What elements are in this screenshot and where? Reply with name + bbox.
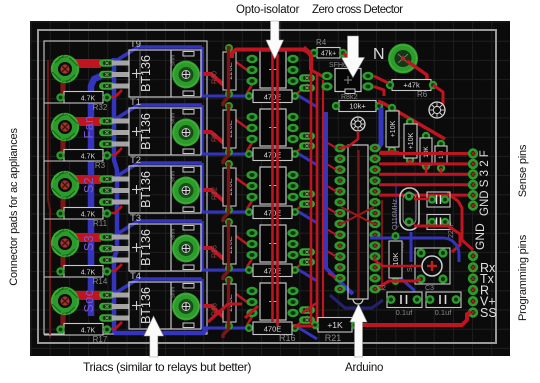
resistor R3 4.7K: [44, 160, 64, 162]
wire blue channel mid 3: [200, 163, 203, 212]
opto-isolator IC 2: [246, 113, 257, 121]
arrow zero cross: [342, 36, 365, 78]
wire blue dip bottom: [330, 295, 358, 308]
svg-text:+10K: +10K: [390, 120, 397, 137]
wire red from N pad: [407, 61, 427, 83]
capacitor C4 22pF: [428, 195, 436, 203]
svg-text:+10K: +10K: [408, 132, 415, 149]
pad DIP pin 22: [369, 209, 380, 218]
wire red crystal right: [414, 226, 460, 252]
resistor R9 220E: [225, 102, 233, 110]
triac tab pad 1: [172, 61, 200, 89]
pad DIP pin 6: [334, 198, 345, 207]
wire red stub pin 5: [328, 186, 336, 191]
pads node right 4: [299, 248, 315, 256]
resistor R18 220E: [225, 276, 233, 284]
wire red from pad to pin 5: [74, 291, 101, 300]
wire blue under resistor 470E 4: [202, 270, 317, 281]
wire red tab to right 3: [192, 190, 229, 208]
resistor R32 4.7K: [44, 102, 64, 104]
svg-text:BT136: BT136: [139, 55, 153, 92]
pad DIP pin 3: [334, 165, 345, 174]
wire blue crystal side: [395, 184, 397, 228]
wire red from pad to pin 3: [74, 175, 101, 184]
svg-text:5mm: 5mm: [171, 287, 177, 298]
pad DIP pin 20: [369, 230, 380, 239]
wire: blue bottom horizontal: [114, 327, 208, 333]
pad DIP pin 25: [369, 176, 380, 185]
wire red from pad to pin 2: [74, 117, 101, 126]
pad DIP pin 16: [369, 274, 380, 283]
wire red dip cross diagonals: [341, 207, 374, 224]
wire blue button loop: [370, 237, 443, 240]
svg-text:R32: R32: [93, 103, 108, 112]
triac tab pad 2: [172, 119, 200, 147]
wire blue channel mid 1: [200, 47, 203, 96]
wire: blue pad bus left: [91, 76, 101, 316]
resistor bank +10K: [388, 104, 396, 112]
resistor R11 4.7K: [44, 218, 64, 220]
pads sense pins: [468, 148, 478, 158]
pad DIP pin 19: [369, 241, 380, 250]
wire red tab to right 5: [192, 306, 229, 324]
wire blue channel top 1: [114, 47, 202, 62]
pad DIP pin 21: [369, 220, 380, 229]
wire blue channel top 3: [114, 163, 202, 178]
wire red opto diag 4: [232, 233, 247, 244]
svg-text:Programming pins: Programming pins: [517, 234, 529, 321]
wire red bank pads to sense: [391, 150, 394, 154]
pad DIP pin 27: [369, 154, 380, 163]
resistor 470E channel 5: [245, 324, 253, 332]
triac legs 1: [112, 61, 129, 66]
wire blue channel top 4: [114, 221, 202, 236]
resistor 470E channel 2: [245, 150, 253, 158]
wire red stub pin 1: [328, 143, 336, 148]
wire red to button: [379, 279, 421, 287]
wire maroon through 220E 4: [223, 220, 229, 280]
svg-text:R6: R6: [417, 90, 428, 99]
svg-text:S1: S1: [407, 263, 414, 272]
pad DIP pin 23: [369, 198, 380, 207]
node channel 3: [44, 155, 317, 228]
svg-text:Soc: Soc: [82, 289, 96, 312]
capacitor C5 22pF: [428, 218, 436, 226]
IC socket ATmega DIP28: [348, 145, 368, 299]
wire red stub pin 9: [328, 230, 336, 235]
wire maroon through 220E 5: [223, 278, 229, 338]
svg-text:+47k: +47k: [403, 81, 420, 90]
pad DIP pin 1: [334, 144, 345, 153]
svg-text:R15: R15: [212, 245, 219, 258]
pads triac pins 5: [99, 291, 115, 299]
svg-text:N: N: [373, 46, 385, 63]
svg-text:Sense pins: Sense pins: [517, 144, 529, 197]
resistor R15 220E: [225, 218, 233, 226]
triac tab pad 4: [172, 235, 200, 263]
wire red resistor to legs 4: [105, 264, 122, 271]
wire red pad to resistor 1: [61, 82, 66, 96]
svg-text:BT136: BT136: [139, 229, 153, 266]
svg-text:R4: R4: [316, 38, 327, 47]
pad DIP pin 26: [369, 165, 380, 174]
board outline frame: [38, 30, 496, 343]
svg-text:5mm: 5mm: [171, 55, 177, 66]
svg-text:R8k2: R8k2: [341, 94, 357, 101]
wire red pad to resistor 3: [61, 198, 66, 212]
wire blue under resistor 470E 5: [202, 328, 317, 339]
node channel 2: [44, 97, 317, 170]
pad DIP pin 2: [334, 154, 345, 163]
wire red opto diag 3: [232, 175, 247, 186]
svg-text:10k+: 10k+: [349, 102, 366, 111]
wire red to R4: [304, 47, 311, 53]
wire: dark red vertical right of dip: [381, 200, 383, 290]
pad DIP pin 24: [369, 187, 380, 196]
pads triac pins 3: [99, 175, 115, 183]
triac legs 3: [112, 177, 129, 182]
wire red stub pin 13: [328, 273, 336, 278]
connector pad P2: [51, 113, 79, 141]
wire red resistor to legs 2: [105, 148, 122, 155]
svg-text:4.7K: 4.7K: [81, 270, 96, 277]
via V2: [351, 117, 365, 131]
pads triac pins 2: [99, 117, 115, 125]
resistor R21 1K: [318, 318, 352, 333]
wire red opto diag 5: [232, 291, 247, 302]
pads node right 2: [299, 132, 315, 140]
wire red sfh link: [311, 70, 322, 76]
wire red via to dip pin1: [341, 131, 358, 148]
wire red resistor to legs 5: [105, 322, 122, 329]
svg-text:4.7K: 4.7K: [81, 328, 96, 335]
resistor 470E channel 4: [245, 266, 253, 274]
svg-text:10K: 10K: [391, 252, 400, 265]
wire red from pad to pin 4: [74, 233, 101, 242]
svg-text:5mm: 5mm: [171, 171, 177, 182]
wire: blue vertical bus left: [114, 58, 117, 333]
svg-text:R30: R30: [212, 71, 219, 84]
svg-text:Triacs (similar to relays but: Triacs (similar to relays but better): [83, 360, 251, 374]
connector pad P4: [51, 229, 79, 257]
wire blue dip to cap: [358, 300, 383, 308]
svg-text:10K: 10K: [423, 146, 430, 158]
triac legs 4: [112, 235, 129, 240]
pads node right 3: [299, 190, 315, 198]
pad DIP pin 11: [334, 252, 345, 261]
wire red diagonal to sense: [378, 101, 445, 139]
svg-text:+1K: +1K: [327, 320, 343, 330]
silkscreen frame around triac block: [44, 41, 207, 334]
opto-isolator IC 5: [246, 287, 257, 295]
svg-text:T9: T9: [130, 39, 141, 50]
pad DIP pin 4: [334, 176, 345, 185]
svg-text:S2: S2: [82, 177, 96, 193]
svg-text:GND S 3 2 F: GND S 3 2 F: [479, 150, 491, 216]
svg-text:4.7K: 4.7K: [81, 212, 96, 219]
connector pad P5: [51, 287, 79, 315]
wire red pad to resistor 5: [61, 314, 66, 328]
triac legs 2: [112, 119, 129, 124]
wire red dip top to bank: [380, 151, 399, 154]
wire blue channel top 2: [114, 105, 202, 120]
triac tab pad 5: [172, 293, 200, 321]
resistor 470E channel 3: [245, 208, 253, 216]
wire red opto diag 2: [232, 117, 247, 128]
wire: red vertical pair through optos: [271, 50, 274, 322]
pad DIP pin 28: [369, 144, 380, 153]
wire blue right top: [376, 108, 381, 150]
wire blue channel top 5: [114, 279, 202, 294]
node channel 5: [44, 271, 317, 344]
svg-text:T3: T3: [130, 213, 141, 224]
wire: blue bus mid right: [326, 112, 353, 294]
wire blue channel mid 4: [200, 221, 203, 270]
node channel 4: [44, 213, 317, 286]
pad DIP pin 10: [334, 241, 345, 250]
svg-text:Q116MHz: Q116MHz: [392, 199, 399, 230]
pad DIP pin 14: [334, 285, 345, 294]
pad DIP pin 18: [369, 252, 380, 261]
svg-text:BT136: BT136: [139, 287, 153, 324]
svg-text:GND: GND: [473, 223, 487, 250]
connector pad P3: [51, 171, 79, 199]
svg-text:Arduino: Arduino: [345, 362, 383, 374]
resistor 470E channel 1: [245, 92, 253, 100]
svg-text:C3: C3: [425, 285, 434, 292]
pads triac pins 4: [99, 233, 115, 241]
pad DIP pin 17: [369, 263, 380, 272]
svg-text:Connector pads for ac applianc: Connector pads for ac appliances: [8, 128, 20, 286]
svg-text:BT136: BT136: [139, 113, 153, 150]
svg-text:R14: R14: [93, 277, 108, 286]
opto-isolator IC 4: [246, 229, 257, 237]
pad DIP pin 8: [334, 220, 345, 229]
svg-text:SS: SS: [480, 306, 497, 320]
svg-text:47k+: 47k+: [321, 51, 336, 58]
node channel 1: [44, 39, 317, 112]
svg-text:R21: R21: [325, 333, 342, 343]
wire red R6 to right: [433, 85, 443, 110]
PCB board background: [30, 21, 510, 356]
svg-text:R11: R11: [93, 219, 108, 228]
svg-text:T4: T4: [130, 271, 141, 282]
wire red tab to right 1: [192, 74, 229, 92]
svg-text:Opto-isolator: Opto-isolator: [236, 4, 300, 16]
arrow triacs: [144, 316, 164, 357]
svg-text:C2: C2: [377, 285, 386, 292]
wire: dark red vertical left: [48, 60, 50, 338]
arrow opto-isolator: [266, 21, 284, 59]
wire red stub pin 11: [328, 252, 336, 257]
wire red resistor to legs 3: [105, 206, 122, 213]
pad DIP pin 15: [369, 285, 380, 294]
triac legs 5: [112, 293, 129, 298]
resistor R12 220E: [225, 160, 233, 168]
wire red from pad to pin 1: [74, 59, 101, 68]
pad DIP pin 13: [334, 274, 345, 283]
connector pad P1: [51, 55, 79, 83]
opto-isolator IC 1: [246, 55, 257, 63]
wire blue under resistor 470E 3: [202, 212, 317, 223]
pad DIP pin 12: [334, 263, 345, 272]
wire maroon through 220E 1: [223, 46, 229, 106]
wire: red vertical bus right of optos: [310, 62, 313, 324]
pads programming pins: [468, 251, 478, 261]
wire red opto diag 1: [232, 59, 247, 70]
wire maroon through 220E 2: [223, 104, 229, 164]
svg-text:S3: S3: [82, 235, 96, 251]
resistor R30 220E: [225, 44, 233, 52]
pad DIP pin 5: [334, 187, 345, 196]
wire red bottom long: [294, 325, 313, 328]
wire red top trunk: [232, 50, 311, 71]
svg-text:0.1uf: 0.1uf: [396, 308, 414, 317]
svg-text:T2: T2: [130, 155, 141, 166]
pad DIP pin 7: [334, 209, 345, 218]
pads node right 1: [299, 74, 315, 82]
svg-text:Fan: Fan: [82, 115, 96, 138]
wire red tab to right 4: [192, 248, 229, 266]
svg-text:R12: R12: [212, 187, 219, 200]
wire red pad to resistor 4: [61, 256, 66, 270]
pads node right 5: [299, 306, 315, 314]
svg-text:Zero cross Detector: Zero cross Detector: [312, 4, 403, 16]
svg-text:R17: R17: [93, 335, 108, 344]
wire red mid bottom diagonals: [208, 304, 242, 322]
resistor R14 4.7K: [44, 276, 64, 278]
svg-text:BT136: BT136: [139, 171, 153, 208]
svg-text:5mm: 5mm: [171, 229, 177, 240]
arrow arduino: [350, 304, 367, 357]
svg-text:R16: R16: [279, 333, 296, 343]
wire blue under resistor 470E 1: [202, 96, 317, 107]
svg-text:4.7K: 4.7K: [81, 96, 96, 103]
svg-text:R3: R3: [95, 161, 106, 170]
svg-text:R9: R9: [212, 133, 219, 142]
wire: dark red vertical through dip: [357, 150, 359, 298]
wire red sense traces: [379, 152, 471, 155]
wire blue under resistor 470E 2: [202, 154, 317, 165]
svg-text:4.7K: 4.7K: [81, 154, 96, 161]
svg-text:0.1uf: 0.1uf: [435, 308, 453, 317]
wire blue channel mid 5: [200, 279, 203, 328]
wire red to gnd pad: [447, 193, 473, 250]
svg-text:5mm: 5mm: [171, 113, 177, 124]
pads triac pins 1: [99, 59, 115, 67]
svg-text:T1: T1: [130, 97, 141, 108]
wire red resistor to legs 1: [105, 90, 122, 97]
wire blue channel mid 2: [200, 105, 203, 154]
wire red pad to resistor 2: [61, 140, 66, 154]
opto-isolator IC 3: [246, 171, 257, 179]
triac tab pad 3: [172, 177, 200, 205]
wire maroon through 220E 3: [223, 162, 229, 222]
wire red stub pin 7: [328, 208, 336, 213]
pad DIP pin 9: [334, 230, 345, 239]
resistor R17 4.7K: [44, 334, 64, 336]
wire red tab to right 2: [192, 132, 229, 150]
via V1: [429, 102, 445, 118]
wire red stub pin 3: [328, 165, 336, 170]
